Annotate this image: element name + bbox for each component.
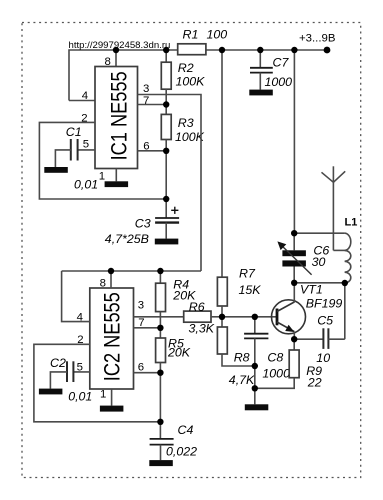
wire emitter to R9	[293, 339, 295, 350]
resistor R9	[289, 350, 322, 390]
ground C3	[155, 239, 179, 245]
wire pin6 IC1	[138, 150, 167, 152]
node C6 bottom collector	[291, 280, 297, 286]
svg-text:0,01: 0,01	[68, 390, 92, 404]
wire R8 top lead	[221, 317, 223, 327]
svg-text:15K: 15K	[239, 283, 262, 297]
node pin6 IC2	[157, 370, 163, 376]
wire pin5 IC2 to C2	[73, 371, 89, 373]
wire pin6 IC2	[134, 372, 161, 374]
svg-text:4,7*25В: 4,7*25В	[105, 232, 149, 246]
node IC2 vcc rail	[62, 270, 201, 272]
node C7 rail	[257, 47, 263, 53]
capacitor C7	[250, 50, 292, 90]
wire C3 to ground	[165, 223, 167, 239]
svg-text:IC1 NE555: IC1 NE555	[107, 71, 132, 160]
ground IC2 pin1	[100, 406, 124, 412]
node R8 C8	[252, 363, 258, 369]
node L1 bottom	[342, 280, 348, 286]
wire emitter to C5	[294, 338, 323, 340]
wire base node line	[222, 316, 277, 318]
wire R4 top lead	[159, 271, 161, 283]
node C6 top	[291, 230, 297, 236]
svg-text:C4: C4	[178, 423, 194, 437]
node pin8 IC2 rail	[108, 268, 114, 274]
svg-text:0,022: 0,022	[166, 445, 197, 459]
svg-text:4,7K: 4,7K	[229, 373, 255, 387]
svg-text:4: 4	[82, 90, 88, 102]
svg-text:R2: R2	[178, 61, 194, 75]
node VCC top rail wire	[69, 50, 327, 101]
svg-text:10: 10	[316, 351, 330, 365]
wire R9 bottom to ground node	[255, 378, 294, 389]
wire C1 to ground	[55, 150, 70, 167]
ground C4	[149, 460, 173, 466]
antenna W1	[322, 166, 346, 250]
svg-text:R7: R7	[239, 267, 256, 281]
wire rail to R7 column	[221, 50, 223, 277]
svg-text:1: 1	[99, 171, 105, 183]
svg-text:8: 8	[100, 278, 106, 290]
wire R2 top lead	[165, 50, 167, 62]
svg-text:C3: C3	[135, 217, 151, 231]
wire R8 bottom to C8 node	[222, 354, 255, 366]
svg-text:8: 8	[105, 56, 111, 68]
svg-text:C5: C5	[317, 314, 333, 328]
wire pin8 IC2	[110, 271, 112, 288]
resistor R8	[217, 327, 255, 387]
wire R6 to base node	[211, 316, 222, 318]
capacitor C1	[66, 125, 98, 192]
svg-text:R3: R3	[178, 116, 194, 130]
resistor R3	[161, 114, 204, 144]
ground C2	[39, 389, 63, 395]
svg-text:22: 22	[307, 376, 322, 390]
wire C6 bottom to L1 bottom	[294, 282, 344, 284]
node base R6 R7 R8	[219, 314, 225, 320]
ground R8 R9 C8	[245, 404, 268, 410]
wire C2 to ground	[50, 372, 67, 389]
node R2 rail	[163, 47, 169, 53]
wire emitter lead	[293, 332, 295, 340]
svg-text:30: 30	[312, 255, 326, 269]
transistor VT1	[272, 283, 343, 334]
wire C4 to ground	[160, 445, 162, 461]
node collector feed rail	[291, 47, 297, 53]
resistor R5	[156, 336, 191, 362]
capacitor C5	[316, 314, 333, 366]
svg-text:0,01: 0,01	[74, 178, 98, 192]
svg-text:6: 6	[138, 362, 144, 374]
node C4 top	[157, 419, 163, 425]
wire R4-R5 link	[159, 312, 161, 338]
wire R3 bottom to C3 node	[165, 140, 167, 218]
wire R7 bottom lead	[221, 306, 223, 317]
wire pin1 IC2	[111, 389, 113, 406]
wire C5 right lead	[328, 338, 344, 340]
ground C7	[249, 90, 272, 96]
wire pin7 IC2	[134, 327, 161, 329]
svg-text:R1: R1	[183, 28, 199, 42]
svg-text:3: 3	[143, 83, 149, 95]
resistor R1	[178, 28, 228, 55]
svg-text:BF199: BF199	[306, 297, 343, 311]
svg-text:100K: 100K	[176, 75, 206, 89]
wire pin2 IC1 feedback	[39, 122, 166, 199]
resistor R2	[161, 61, 205, 89]
svg-text:5: 5	[83, 138, 89, 150]
wire pin3 IC2 to R6	[134, 316, 184, 318]
wire pin3 IC1 to IC2 rail	[138, 95, 202, 272]
node C8 top	[252, 314, 258, 320]
wire rail to collector column	[293, 50, 295, 233]
wire pin5 IC1 to C1	[78, 149, 95, 151]
svg-text:1: 1	[100, 388, 106, 400]
capacitor C8	[244, 317, 290, 381]
resistor R4	[156, 278, 196, 312]
svg-text:3: 3	[138, 300, 144, 312]
resistor R7	[217, 267, 261, 307]
capacitor C6 trimmer	[277, 233, 329, 283]
node R9 return	[252, 385, 258, 391]
node C3 top	[163, 196, 169, 202]
svg-text:http://299792458.3dn.ru: http://299792458.3dn.ru	[69, 40, 171, 51]
wire pin4 IC1	[69, 100, 95, 102]
ground C1	[44, 167, 68, 173]
svg-text:1000: 1000	[265, 75, 293, 89]
node pin8 IC1 rail	[113, 47, 119, 53]
wire C6 top to L1 top	[294, 232, 344, 234]
capacitor C4	[150, 423, 198, 459]
svg-text:1000: 1000	[262, 367, 290, 381]
wire pin4 IC2	[62, 271, 90, 322]
svg-text:20K: 20K	[167, 346, 191, 360]
wire collector lead	[293, 283, 295, 303]
wire C8 node to ground node	[254, 366, 256, 404]
wire R2-R3 link	[165, 89, 167, 114]
svg-text:IC2 NE555: IC2 NE555	[99, 292, 124, 381]
wire pin8 IC1	[115, 50, 117, 67]
wire R5 bottom to C4 node	[159, 363, 161, 439]
svg-text:+3...9В: +3...9В	[299, 33, 335, 45]
wire pin1 IC1	[115, 169, 117, 182]
node supply terminal	[324, 47, 331, 54]
svg-text:C2: C2	[50, 356, 66, 370]
svg-text:VT1: VT1	[300, 283, 323, 297]
svg-text:L1: L1	[345, 216, 358, 228]
capacitor C3	[105, 207, 179, 246]
svg-text:C8: C8	[267, 351, 283, 365]
node R1 right rail	[219, 47, 225, 53]
svg-text:C1: C1	[66, 125, 82, 139]
node emitter	[291, 336, 297, 342]
node R4 top rail	[157, 268, 163, 274]
node pin7 IC2	[157, 325, 163, 331]
node pin7 IC1	[163, 101, 169, 107]
wire L1 bottom to C5	[344, 283, 346, 339]
svg-text:R6: R6	[189, 300, 205, 314]
wire antenna tap to L1	[333, 249, 346, 251]
capacitor C2	[50, 356, 92, 404]
svg-text:3,3K: 3,3K	[189, 322, 215, 336]
wire pin7 IC1	[138, 104, 167, 106]
wire pin2 IC2 feedback	[34, 344, 160, 422]
op IC2 NE555	[90, 288, 134, 389]
ground IC1 pin1	[105, 181, 129, 187]
svg-text:C7: C7	[273, 55, 290, 69]
inductor L1	[345, 216, 358, 283]
op IC1 NE555	[95, 67, 138, 169]
svg-text:R8: R8	[234, 351, 250, 365]
resistor R6	[184, 300, 215, 336]
node pin6 IC1	[163, 148, 169, 154]
svg-text:100: 100	[207, 28, 228, 42]
